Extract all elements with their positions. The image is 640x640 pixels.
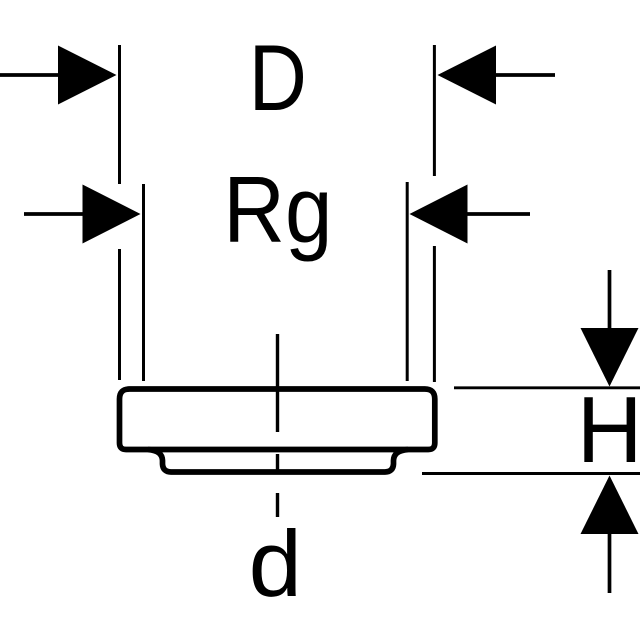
dimension arrow D right (438, 46, 556, 105)
centerline (dashed axis) (276, 334, 279, 517)
extension line Rg left (142, 184, 145, 381)
svg-text:d: d (249, 511, 302, 616)
extension line D left (118, 45, 121, 380)
part outline: lower lip (148, 450, 408, 473)
extension line Rg right (406, 182, 409, 381)
svg-text:D: D (249, 25, 307, 130)
dimension arrow D left (0, 46, 117, 105)
dimension arrow Rg left (24, 185, 141, 244)
svg-text:Rg: Rg (223, 157, 332, 262)
extension line D right (433, 45, 436, 382)
dimension arrow H top (581, 270, 639, 387)
svg-text:H: H (577, 377, 640, 482)
extension line H bottom (422, 472, 640, 475)
dimension arrow Rg right (410, 185, 531, 244)
dimension arrow H bottom (581, 476, 639, 594)
part outline: flange body (120, 389, 435, 450)
extension line H top (454, 386, 640, 389)
